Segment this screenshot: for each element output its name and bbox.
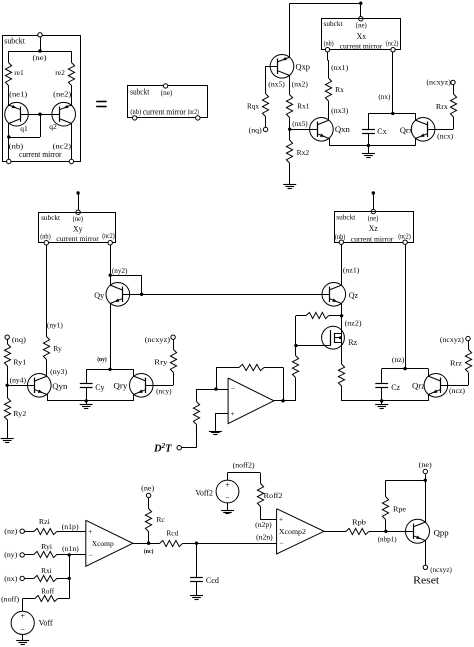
svg-text:current mirror: current mirror xyxy=(19,150,62,159)
svg-text:(noff): (noff) xyxy=(1,594,20,603)
svg-text:Rpe: Rpe xyxy=(393,504,407,513)
svg-text:(ne): (ne) xyxy=(368,215,379,223)
svg-text:(ny1): (ny1) xyxy=(47,321,63,330)
svg-text:(ne): (ne) xyxy=(73,215,84,223)
svg-text:Qz: Qz xyxy=(349,291,359,300)
svg-text:(nx5): (nx5) xyxy=(292,119,308,128)
svg-text:Xz: Xz xyxy=(369,224,378,233)
svg-text:Ry: Ry xyxy=(53,344,62,353)
svg-text:Rx1: Rx1 xyxy=(297,102,309,111)
svg-text:subckt: subckt xyxy=(41,213,61,222)
svg-text:current mirror: current mirror xyxy=(340,41,383,50)
svg-text:Qxp: Qxp xyxy=(296,62,311,71)
svg-text:−: − xyxy=(231,384,235,393)
svg-text:(ncz): (ncz) xyxy=(449,386,466,395)
svg-text:(ne): (ne) xyxy=(33,53,48,62)
svg-text:(nbp1): (nbp1) xyxy=(378,534,397,543)
svg-text:subckt: subckt xyxy=(4,37,25,46)
svg-text:(ne2): (ne2) xyxy=(53,89,72,98)
svg-text:Rpb: Rpb xyxy=(352,518,366,527)
svg-text:(nx5): (nx5) xyxy=(268,79,285,88)
svg-text:Qy: Qy xyxy=(94,291,104,300)
svg-text:+: + xyxy=(230,409,234,418)
svg-text:Rry: Rry xyxy=(154,357,167,366)
svg-text:Qrz: Qrz xyxy=(412,381,425,390)
svg-text:Rc: Rc xyxy=(156,515,165,524)
svg-text:(nx3): (nx3) xyxy=(331,106,349,115)
svg-text:(ny): (ny) xyxy=(4,550,18,559)
svg-text:D2T: D2T xyxy=(153,442,172,454)
svg-text:Roff: Roff xyxy=(41,587,54,596)
svg-text:re2: re2 xyxy=(55,68,65,77)
svg-text:(nz): (nz) xyxy=(392,355,405,364)
svg-text:−: − xyxy=(88,550,92,559)
svg-text:(ny): (ny) xyxy=(97,356,107,363)
svg-text:subckt: subckt xyxy=(336,213,356,222)
svg-text:current mirror: current mirror xyxy=(56,234,99,243)
svg-text:−: − xyxy=(225,494,230,503)
svg-text:(nx): (nx) xyxy=(4,574,18,583)
svg-text:Xy: Xy xyxy=(73,224,83,233)
svg-text:−: − xyxy=(20,625,25,634)
svg-text:(nq): (nq) xyxy=(249,126,263,135)
svg-text:Xcomp: Xcomp xyxy=(92,539,114,548)
svg-text:Qrx: Qrx xyxy=(400,126,413,135)
svg-text:Ry2: Ry2 xyxy=(13,409,26,418)
svg-text:(n2p): (n2p) xyxy=(255,520,272,529)
svg-text:Cx: Cx xyxy=(377,127,386,136)
svg-text:+: + xyxy=(225,480,230,489)
svg-text:Voff2: Voff2 xyxy=(195,489,213,498)
svg-text:Rcd: Rcd xyxy=(166,529,178,538)
svg-text:(nb): (nb) xyxy=(40,232,51,240)
svg-text:(ne1): (ne1) xyxy=(9,89,28,98)
svg-text:Qyn: Qyn xyxy=(52,382,67,391)
svg-text:(ncxyz): (ncxyz) xyxy=(145,335,171,344)
svg-text:(n1p): (n1p) xyxy=(62,522,80,531)
svg-text:Rx2: Rx2 xyxy=(297,148,310,157)
svg-text:+: + xyxy=(88,527,92,536)
svg-text:+: + xyxy=(20,612,25,621)
svg-text:Qxn: Qxn xyxy=(335,125,350,134)
svg-text:Rrz: Rrz xyxy=(450,358,463,367)
svg-text:re1: re1 xyxy=(14,68,24,77)
svg-text:(nx): (nx) xyxy=(378,92,390,101)
svg-text:(ncxyz): (ncxyz) xyxy=(430,565,452,574)
svg-text:(ncxyz): (ncxyz) xyxy=(426,78,451,87)
svg-text:Ry1: Ry1 xyxy=(13,357,26,366)
svg-text:Rqx: Rqx xyxy=(247,102,259,111)
svg-text:(n2n): (n2n) xyxy=(256,533,273,542)
svg-text:(noff2): (noff2) xyxy=(233,460,256,469)
svg-text:(ncy): (ncy) xyxy=(156,387,172,396)
svg-text:(nc2): (nc2) xyxy=(398,232,411,240)
svg-text:Rrx: Rrx xyxy=(436,102,448,111)
svg-text:Rzi: Rzi xyxy=(39,517,50,526)
svg-text:current mirror: current mirror xyxy=(351,234,394,243)
svg-text:Rxi: Rxi xyxy=(41,566,52,575)
svg-text:q1: q1 xyxy=(20,124,28,133)
svg-text:(nc2): (nc2) xyxy=(188,107,199,116)
svg-text:Roff2: Roff2 xyxy=(264,491,283,500)
svg-text:Xcomp2: Xcomp2 xyxy=(279,527,306,536)
svg-text:(nx1): (nx1) xyxy=(331,63,349,72)
svg-text:Reset: Reset xyxy=(413,576,439,587)
svg-text:(nb): (nb) xyxy=(130,107,141,116)
svg-text:Ryi: Ryi xyxy=(41,542,52,551)
svg-text:(ny2): (ny2) xyxy=(112,266,128,275)
svg-text:Qpp: Qpp xyxy=(434,529,449,538)
svg-text:Rx: Rx xyxy=(335,85,344,94)
svg-text:(nc2): (nc2) xyxy=(386,40,399,48)
svg-text:(nz2): (nz2) xyxy=(345,318,363,327)
svg-text:Ccd: Ccd xyxy=(206,576,219,585)
svg-text:(ne): (ne) xyxy=(419,460,433,469)
svg-text:(ny4): (ny4) xyxy=(10,375,27,384)
svg-text:subckt: subckt xyxy=(130,88,150,97)
svg-text:−: − xyxy=(279,538,283,547)
svg-text:(nc): (nc) xyxy=(144,548,154,555)
svg-text:(ne): (ne) xyxy=(356,22,368,30)
svg-text:Cy: Cy xyxy=(95,383,104,392)
svg-text:q2: q2 xyxy=(49,122,57,131)
svg-text:Xx: Xx xyxy=(357,32,367,41)
svg-text:(ne): (ne) xyxy=(161,88,173,97)
svg-text:(ncxyz): (ncxyz) xyxy=(440,335,465,344)
svg-text:current mirror: current mirror xyxy=(143,108,186,117)
svg-text:+: + xyxy=(279,515,283,524)
svg-text:(nq): (nq) xyxy=(12,335,27,344)
svg-text:(ny3): (ny3) xyxy=(50,367,68,376)
svg-text:(ne): (ne) xyxy=(141,483,155,492)
svg-text:Voff: Voff xyxy=(39,618,53,627)
svg-text:(nz1): (nz1) xyxy=(343,266,360,275)
svg-text:Rz: Rz xyxy=(348,338,357,347)
svg-text:(nb): (nb) xyxy=(335,233,346,241)
svg-text:subckt: subckt xyxy=(324,19,344,28)
svg-text:Cz: Cz xyxy=(391,383,400,392)
svg-text:(n1n): (n1n) xyxy=(62,544,79,553)
svg-text:Qry: Qry xyxy=(113,381,127,390)
svg-text:(nz): (nz) xyxy=(4,527,18,536)
svg-text:(nb): (nb) xyxy=(324,40,335,48)
svg-text:(nx2): (nx2) xyxy=(292,79,308,88)
svg-text:(nc2): (nc2) xyxy=(102,232,115,240)
svg-text:(ncx): (ncx) xyxy=(437,132,454,141)
